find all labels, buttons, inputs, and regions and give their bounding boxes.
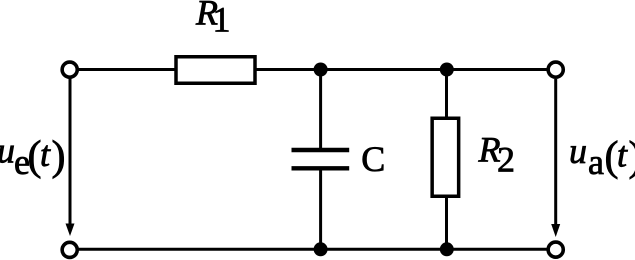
svg-text:): ) <box>629 134 635 180</box>
terminal: input bottom <box>62 242 77 257</box>
wire: capacitor branch upper <box>319 70 322 150</box>
label u_a(t) <box>569 131 635 182</box>
label u_e(t) <box>0 130 66 182</box>
terminal: input top <box>62 62 77 77</box>
svg-text:): ) <box>52 134 66 180</box>
voltage arrow u_e <box>66 79 75 237</box>
wire top: node B to right terminal <box>447 68 549 71</box>
resistor R1 <box>176 57 255 84</box>
svg-text:C: C <box>361 139 385 179</box>
resistor R2 <box>432 118 459 196</box>
node B junction dot (top, R2) <box>440 63 454 77</box>
wire bottom: node D to right terminal <box>447 248 549 251</box>
svg-text:2: 2 <box>497 139 515 179</box>
terminal: output bottom <box>548 242 563 257</box>
node A junction dot (top, capacitor) <box>314 63 328 77</box>
svg-text:u: u <box>0 130 15 170</box>
terminal: output top <box>548 62 563 77</box>
wire top: node A to node B <box>321 68 447 71</box>
node D junction dot (bottom, R2) <box>440 242 454 256</box>
wire: R2 branch upper <box>445 70 448 121</box>
wire bottom: left terminal to node C <box>77 248 321 251</box>
wire top: R1 to node A <box>254 68 321 71</box>
label R1 <box>195 0 231 40</box>
capacitor C plates <box>292 150 350 168</box>
label C <box>361 139 385 179</box>
voltage arrow u_a <box>551 79 560 237</box>
svg-text:t: t <box>40 134 51 174</box>
svg-text:t: t <box>617 135 628 175</box>
wire bottom: node C to node D <box>321 248 447 251</box>
svg-text:u: u <box>569 131 587 171</box>
wire: R2 branch lower <box>445 195 448 249</box>
wire: capacitor branch lower <box>319 169 322 249</box>
wire top: left terminal to R1 <box>77 68 178 71</box>
node C junction dot (bottom, capacitor) <box>314 242 328 256</box>
svg-text:1: 1 <box>213 0 231 40</box>
label R2 <box>478 129 516 179</box>
svg-text:a: a <box>588 142 604 182</box>
